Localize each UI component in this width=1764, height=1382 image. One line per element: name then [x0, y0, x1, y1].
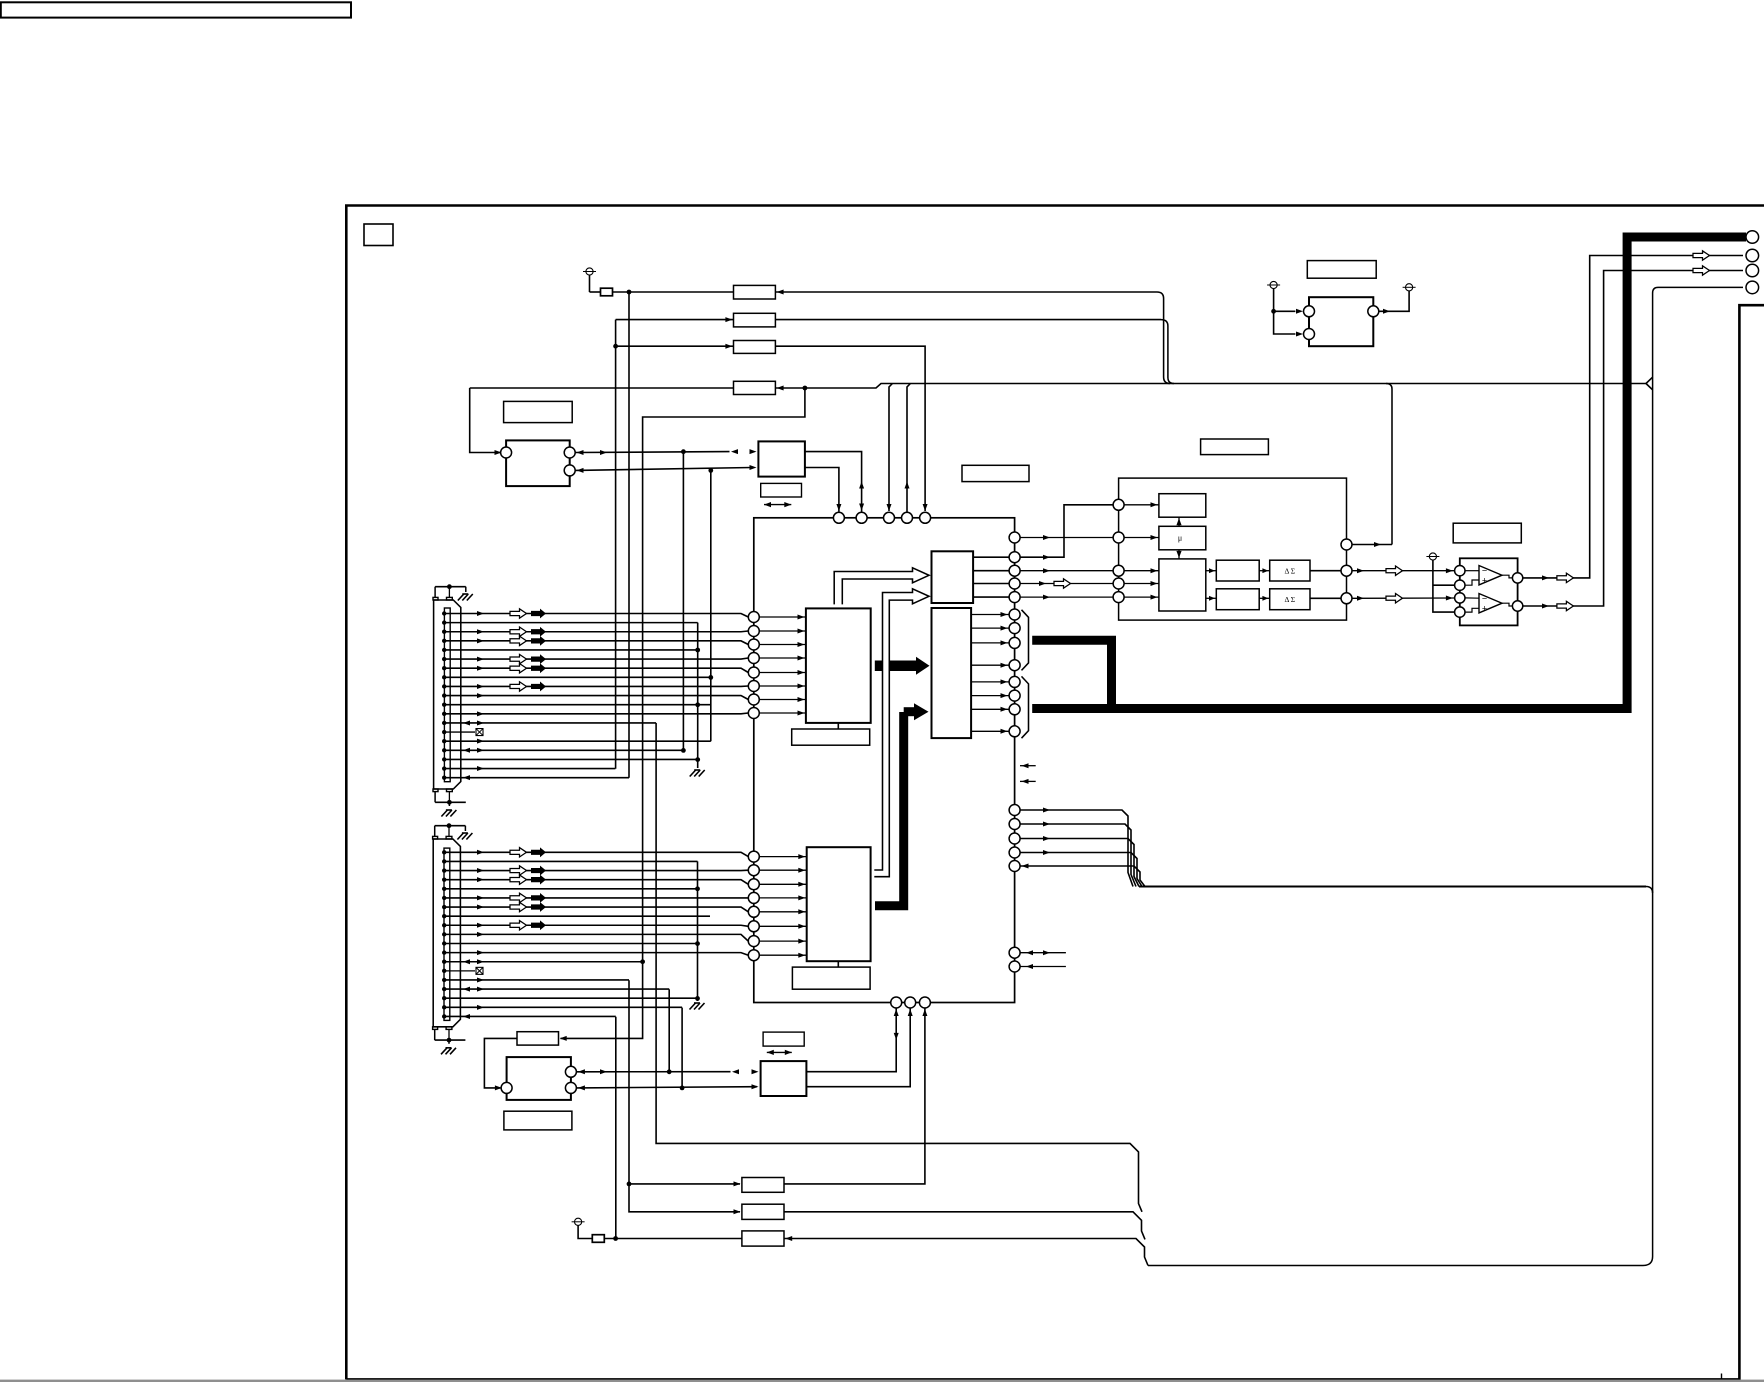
U1 right pin circles: [1009, 532, 1020, 543]
TP4 stem wire: [1433, 560, 1454, 612]
test point TP3: [1406, 284, 1413, 291]
junction V710-L8: [708, 675, 713, 680]
wire V615b (CN2 pin19 down to TP5 net): [615, 1017, 617, 1239]
wire CN2 pin13 (bidir): [442, 960, 446, 964]
wire PLL2-B to boxH: [576, 1087, 757, 1088]
svg-text:+: +: [1482, 604, 1487, 614]
interface box H: [761, 1061, 807, 1096]
control stub arrows into U1 right edge b: [1020, 780, 1036, 782]
wire U3 out B to top pin1: [805, 468, 839, 512]
wire staircase step3 (box L line): [784, 1239, 1148, 1266]
open arrow glyph near connector3 circle: [1693, 266, 1710, 275]
wire PLL1-B to box5: [575, 468, 752, 471]
wire CN1 pin2 (ground): [442, 620, 446, 624]
DAC box F (delta-sigma L): [1270, 560, 1310, 581]
junction V615-boxL wire: [613, 1236, 618, 1241]
opamp A output wire: [1502, 575, 1512, 578]
wire TP1 stem: [589, 275, 591, 292]
junction V683b bottom: [680, 1086, 685, 1091]
brace group3 to bus DB2: [1022, 676, 1029, 738]
wire box M loop to PLL2 input: [484, 1038, 517, 1088]
box4 (label box on rail): [734, 381, 776, 394]
TP5 stem wire: [578, 1225, 592, 1238]
wire CN2 pin4 to U1: [442, 877, 446, 881]
DAC box B (mu-law): [1159, 526, 1206, 550]
junction gbus1-L17: [695, 757, 700, 762]
wire CN1 pin5 (ground): [442, 648, 446, 652]
wire CN2 pin6 to U1: [442, 896, 446, 900]
wire CN2 pin2 (ground): [442, 859, 446, 863]
wire V656 (serial line to bottom-right): [656, 723, 1142, 1212]
DAC section outline: [1119, 478, 1347, 620]
wire rg1-597 to DAC in5: [1020, 596, 1113, 598]
wire W-B3 (through box3 to top pin5): [616, 346, 926, 511]
wire CN1 pin4 to U1: [442, 639, 446, 643]
connector CN2 bottom ground: [441, 1048, 447, 1055]
svg-text:+: +: [1482, 576, 1487, 586]
junction gbus1-L11: [695, 702, 700, 707]
block1 label box: [792, 729, 870, 745]
block1b label box: [792, 967, 870, 989]
arrow into opamp in3: [1446, 596, 1453, 601]
scanner edge band bottom: [0, 1380, 1764, 1382]
label box under U3: [761, 483, 802, 497]
arrow pair into boxH line1: [732, 1069, 739, 1074]
box3 (label box on wire): [734, 341, 776, 354]
label box above box H: [763, 1032, 804, 1046]
arrow into box3: [725, 344, 732, 349]
block1 input wires with arrows: [759, 616, 806, 618]
wire CN2 pin3 to U1: [442, 868, 446, 872]
arrow into boxH line2: [752, 1084, 759, 1089]
svg-text:Δ Σ: Δ Σ: [1284, 567, 1295, 576]
opamp B triangle: [1479, 594, 1502, 613]
junction loop top-right: [1646, 887, 1653, 894]
test point TP1: [586, 268, 593, 275]
connector CN2 body: [433, 839, 460, 1027]
junction gbus2-M17: [695, 996, 700, 1001]
wire V889 elbow from rail to top pin3: [889, 384, 892, 512]
wire W1 (main rail through box4): [470, 384, 1646, 389]
U1 top pin circles: [833, 512, 844, 523]
thick data bus DB3 (decoder2 to block3): [875, 712, 904, 906]
U1 bottom pin circles: [891, 997, 902, 1008]
wire clock W-B1 (through box1): [613, 291, 1158, 293]
connector CN1 top cap: [435, 586, 466, 588]
wire CN2 pin9 to U1: [442, 923, 446, 927]
bidirectional glyph above box H: [767, 1051, 792, 1053]
page corner reference box: [364, 224, 393, 246]
svg-text:−: −: [1482, 594, 1487, 604]
test point TP4: [1429, 553, 1436, 560]
wire CN2 pin11 (ground): [442, 941, 446, 945]
wire rg1-557 riser to DAC in1: [1020, 505, 1113, 557]
component stub X1: [590, 291, 601, 293]
connector CN1 slot: [444, 608, 450, 782]
label box PLL1: [504, 401, 573, 422]
arrow down into top circle1: [836, 504, 841, 511]
DAC box D (filter L): [1216, 560, 1259, 581]
junction V669-PLL2 line: [667, 1069, 672, 1074]
arrow into box L: [785, 1236, 792, 1241]
junction gbus2-M5: [695, 886, 700, 891]
reset U4 input circle 1: [1304, 306, 1315, 317]
label box for reset block: [1307, 261, 1376, 279]
wire CN1 pin9 to U1: [442, 684, 446, 688]
wire TP2 branch to pin1: [1274, 310, 1296, 312]
wire DAC outL to opamp: [1352, 570, 1454, 572]
main diagram border: [346, 206, 1764, 1380]
open arrow glyph on outB: [1557, 601, 1574, 610]
wire PLL2-A to boxH (bidirectional): [576, 1071, 730, 1073]
label box near U1 top-right: [962, 465, 1029, 481]
TP4 branch to opamp in2: [1433, 584, 1454, 586]
wire W1 fork into loop line: [1646, 377, 1653, 383]
PLL1 block U2: [506, 440, 570, 486]
junction CN2 pin13 on V642: [640, 959, 645, 964]
control stub arrows into U1 right edge a: [1020, 765, 1036, 767]
box1 (label box on clock wire): [734, 285, 776, 299]
block1 label stub: [837, 723, 839, 729]
wires DAC in3-5 to box C: [1124, 570, 1159, 572]
wire boxJ feed: [629, 1183, 740, 1185]
opamp A triangle: [1479, 566, 1502, 585]
svg-text:−: −: [1482, 566, 1487, 576]
block1b input wires with arrows: [759, 856, 806, 858]
edge connector circle 2: [1746, 249, 1759, 262]
wire CN2 pin12 to U1: [442, 950, 446, 954]
reset block U4: [1309, 297, 1373, 346]
wire X2 to box L: [604, 1238, 742, 1240]
connector CN1 body: [434, 600, 461, 789]
thick data bus arrow DB4 (block1 to block3): [875, 660, 916, 671]
opamp block U5 outline: [1460, 558, 1518, 625]
junction gbus2-M11: [695, 941, 700, 946]
wire D to F: [1259, 570, 1270, 572]
open arrow glyph on outA: [1557, 573, 1574, 582]
label box L: [742, 1231, 784, 1246]
open arrow glyph outR: [1386, 594, 1403, 603]
wire W-B2 right bend into rail: [1161, 320, 1174, 384]
PLL1 input pin circle: [501, 447, 512, 458]
open arrow glyph outL: [1386, 566, 1403, 575]
wire stub on bottom border: [1721, 1374, 1723, 1380]
wire CN1 pin7 to U1: [442, 666, 446, 670]
wire opamp outB to connector circle 3: [1523, 271, 1743, 607]
DAC left pin circles: [1113, 499, 1124, 510]
connector CN2 top ground: [457, 833, 463, 840]
wire PLL1-A to box5 (bidirectional): [575, 451, 729, 454]
arrow down into top circle3: [887, 504, 892, 511]
wire TP2 stem: [1274, 289, 1296, 334]
wire CN1 pin19: [442, 775, 446, 779]
wire CN1 pin14 to NC: [442, 730, 446, 734]
ground symbol G1: [690, 770, 696, 777]
block1b label stub: [837, 961, 839, 967]
wire U1 bottom pin3 from boxJ: [784, 1008, 925, 1184]
ground bus connector2: [697, 861, 699, 1001]
wire CN1 pin16 (bidir): [442, 748, 446, 752]
open arrow glyph on 583 wire: [1054, 579, 1071, 588]
arrow into PLL1 input circle: [495, 450, 502, 455]
junction V710 top: [708, 468, 713, 473]
wire V669 (connector2 to PLL2 line): [668, 989, 670, 1072]
connector CN1 bottom ground: [441, 810, 447, 817]
DAC box G (delta-sigma R): [1270, 589, 1310, 610]
DAC right pin circles: [1341, 539, 1352, 550]
junction on TP2 stem: [1271, 309, 1276, 314]
hollow bus arrow HB1 (block1 to block2): [834, 568, 929, 605]
wire CN2 pin16 (bidir): [442, 987, 446, 991]
arrow into box K: [734, 1209, 741, 1214]
wire V683a (PLL1 bus to connector1): [682, 452, 684, 751]
wire CN1 pin6 to U1: [442, 657, 446, 661]
wire CN1 pin11 (ground): [442, 703, 446, 707]
reset U4 input circle 2: [1304, 329, 1315, 340]
block1 (decoder1) inside U1: [806, 608, 871, 723]
wire V683b (connector2 to PLL2 line2): [681, 1008, 683, 1088]
junction V629-boxJ: [627, 1182, 632, 1187]
junction W-B3 on V615: [613, 344, 618, 349]
wire V642 (box4 branch to box M): [561, 388, 805, 1038]
control box U3: [758, 441, 805, 476]
PLL1 output pin circle A: [564, 447, 575, 458]
block3 output wires group2: [971, 614, 1009, 616]
wire U4 output to TP3: [1378, 291, 1409, 311]
connector CN2 top cap: [435, 825, 466, 827]
wire U3 out A to top pin2: [805, 452, 862, 512]
connector CN1 bottom cap: [435, 801, 466, 803]
edge connector circle 1 (thick bus): [1746, 231, 1759, 244]
block3 output wires group3: [971, 681, 1009, 683]
arrow into box1: [777, 290, 784, 295]
thick bus DB3 arrowhead into block3: [904, 707, 914, 716]
main IC block U1 outline: [754, 518, 1015, 1003]
wire CN2 pin15: [442, 978, 446, 982]
open arrow glyph near connector2 circle: [1693, 251, 1710, 260]
wire W-B1 right bend into rail: [1157, 292, 1170, 384]
label box above DAC: [1201, 439, 1269, 455]
wire boxB to boxA arrow up: [1178, 517, 1180, 526]
junction W1-V642: [803, 386, 808, 391]
box M (label box on PLL2 feed): [517, 1032, 559, 1045]
wire C to D: [1206, 570, 1217, 572]
PLL1 output pin circle B: [564, 465, 575, 476]
wire V629 (clock vertical, ends at CN1 pin19): [628, 292, 630, 778]
ground bus connector1: [697, 623, 699, 768]
wire DAC circle to V1392: [1352, 544, 1392, 546]
junction V683a top: [681, 449, 686, 454]
arrow into box J: [734, 1181, 741, 1186]
wire CN2 pin14 to NC: [442, 969, 446, 973]
connector CN2 bottom cap: [435, 1039, 466, 1041]
DAC box C (interpolator): [1159, 559, 1206, 611]
PLL2 output pin circle B: [565, 1082, 576, 1093]
wire CN1 pin8: [442, 675, 446, 679]
wire CN2 pin10 to U1: [442, 932, 446, 936]
wire CN2 pin18: [442, 1005, 446, 1009]
arrow pair at box5 side: [731, 449, 738, 454]
wire CN1 pin3 to U1: [442, 630, 446, 634]
U1 left pin circles group2: [748, 851, 759, 862]
arrow into reset pin2: [1296, 332, 1303, 337]
label box J: [742, 1178, 784, 1193]
wire CN2 pin5 (ground): [442, 887, 446, 891]
wire V629b (CN2 pin15 down to box K): [629, 980, 740, 1212]
arrow on DAC monitor wire: [1374, 542, 1381, 547]
arrow into PLL2 input circle: [495, 1085, 502, 1090]
wire CN1 pin10 to U1: [442, 693, 446, 697]
svg-text:μ: μ: [1178, 534, 1182, 543]
junction clock-V629: [627, 290, 632, 295]
block2 output wires: [973, 556, 1009, 558]
label box K: [742, 1204, 784, 1219]
label box PLL2: [504, 1111, 572, 1130]
wire U1 bottom pin1 to boxH (bidir): [806, 1008, 896, 1072]
opamp A input wires: [1465, 570, 1479, 572]
ground symbol G2: [690, 1003, 696, 1010]
wire rg1-570 to DAC in3: [1020, 570, 1113, 572]
wire rg1-537 to DAC in2: [1020, 537, 1113, 539]
test point TP2: [1270, 281, 1277, 288]
block3 (output selector lower): [932, 608, 972, 738]
wire CN2 pin1 to U1: [442, 850, 446, 854]
wire CN2 pin17 (ground): [442, 996, 446, 1000]
wire C to E: [1206, 597, 1217, 599]
wire CN2 pin19: [442, 1014, 446, 1018]
edge connector circle 4: [1746, 281, 1759, 294]
wire W-B2 (through box2): [616, 319, 1161, 321]
wire CN2 pin7 to U1: [442, 905, 446, 909]
wire CN1 pin13 (bidir serial): [442, 721, 446, 725]
wire boxB to boxC arrow down: [1178, 550, 1180, 559]
wire U1 bottom pin2 to boxH: [806, 1008, 910, 1087]
wire rg1-583 to DAC in4: [1020, 583, 1113, 585]
wire G to DAC out pin R: [1310, 597, 1341, 599]
PLL2 output pin circle A: [565, 1066, 576, 1077]
wire CN1 pin17 (ground): [442, 757, 446, 761]
wire V1392 (DAC monitor to rail): [1386, 384, 1392, 545]
label box above opamp block: [1453, 523, 1521, 543]
arrow into box2: [725, 317, 732, 322]
wire DAC outR to opamp: [1352, 597, 1454, 599]
PLL2 block U6: [507, 1057, 571, 1100]
DAC box A: [1159, 494, 1206, 518]
block2 (output selector upper): [932, 551, 974, 603]
wire CN1 pin15: [442, 739, 446, 743]
wire CN1 pin12 to U1: [442, 712, 446, 716]
U1 left pin circles group1: [748, 612, 759, 623]
arrows bidirectional on U3-A wire: [859, 482, 864, 489]
reset U4 output circle: [1368, 306, 1379, 317]
wire E to G: [1259, 597, 1270, 599]
svg-text:Δ Σ: Δ Σ: [1284, 595, 1295, 604]
component stub X2: [592, 1235, 604, 1243]
opamp output circles: [1512, 573, 1522, 583]
connector CN2 slot: [444, 848, 450, 1020]
arrow into box4: [777, 386, 784, 391]
arrow into box5 line2: [750, 465, 757, 470]
wire DAC in1 to box A: [1124, 504, 1159, 506]
thick data bus DB1 (upper, from brace to join): [1032, 640, 1111, 708]
PLL2 input pin circle: [501, 1082, 512, 1093]
box2 (label box on wire): [734, 313, 776, 327]
wire V615 (box2 feed vertical, ends at CN1 pin18): [615, 320, 617, 769]
arrow down into top circle5: [923, 504, 928, 511]
arrow into reset pin1: [1296, 309, 1303, 314]
wires U1 aux pins with arrows (lower right): [1020, 952, 1066, 954]
wire V710 (PLL1 line2 to connector1 L15): [710, 470, 712, 741]
wires rg4 outputs to loop bundle: [1020, 810, 1133, 887]
wire loop top run: [1139, 886, 1646, 888]
wire CN2 pin8: [442, 914, 446, 918]
opamp B input wires: [1465, 597, 1479, 599]
title box (page header): [1, 2, 351, 17]
junction gbus1-L5: [695, 648, 700, 653]
DAC box E (filter R): [1216, 589, 1259, 610]
wire V907 elbow from rail to top pin4: [907, 384, 910, 513]
hollow bus arrow HB2 (decoder2 to block2): [874, 589, 929, 877]
wire DAC in2 to box B: [1124, 537, 1159, 539]
opamp B output wire: [1502, 603, 1512, 606]
opamp input circles: [1455, 566, 1465, 576]
wire F to DAC out pin L: [1310, 570, 1341, 572]
arrow on U4 output: [1383, 309, 1390, 314]
brace group2 to bus DB1: [1022, 610, 1029, 671]
edge connector circle 3: [1746, 264, 1759, 277]
thick data bus DB2 (main, to top-right connector circle): [1032, 237, 1746, 709]
wire loop V1653 from circle4 down right side: [1148, 287, 1743, 1265]
connector CN1 top ground: [458, 594, 464, 601]
wire staircase step2 (box K line): [784, 1212, 1145, 1240]
wire rg4 input from loop: [1020, 866, 1145, 887]
arrow up on V907: [905, 482, 910, 489]
wire W1 branch to PLL1 input: [470, 388, 500, 453]
test point TP5: [575, 1218, 582, 1225]
arrow into box M: [560, 1036, 567, 1041]
arrow into opamp in1: [1446, 568, 1453, 573]
block1b (decoder2) inside U1: [807, 847, 871, 961]
wire opamp outA to connector circle 2: [1523, 256, 1743, 578]
wire CN1 pin18: [442, 766, 446, 770]
wire CN1 pin1 to U1: [442, 611, 446, 615]
junction V683a bottom: [681, 748, 686, 753]
bidirectional glyph under U3: [764, 504, 791, 506]
